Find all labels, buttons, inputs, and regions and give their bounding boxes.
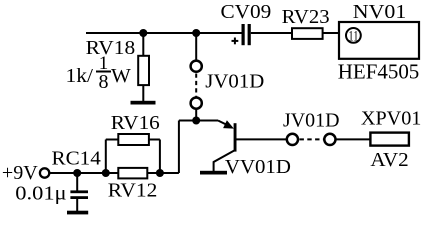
ground under RV18 <box>131 101 156 105</box>
junction dot RV pair left <box>102 169 110 177</box>
junction dot at JV01D top <box>192 29 200 37</box>
svg-text:XPV01: XPV01 <box>361 107 422 129</box>
svg-text:1k/: 1k/ <box>66 65 94 87</box>
junction dot at RV18 top <box>139 29 147 37</box>
wire bottom rail <box>49 172 179 174</box>
wire top rail left segment <box>86 32 242 34</box>
junction dot emitter node <box>192 117 200 125</box>
terminal +9V <box>40 168 49 177</box>
svg-text:CV09: CV09 <box>221 1 272 23</box>
wire rail between cap and RV23 <box>251 32 292 34</box>
svg-text:0.01μ: 0.01μ <box>15 182 66 204</box>
svg-text:8: 8 <box>99 71 109 93</box>
svg-text:+9V: +9V <box>2 162 38 184</box>
svg-text:RV12: RV12 <box>108 180 158 202</box>
svg-text:11: 11 <box>348 29 358 45</box>
svg-text:RC14: RC14 <box>52 147 101 169</box>
connector XPV01 <box>370 133 409 146</box>
resistor RV12 <box>118 168 147 179</box>
svg-text:RV18: RV18 <box>86 37 136 59</box>
ground under transistor <box>200 171 227 175</box>
resistor RV16 branch <box>106 134 160 173</box>
resistor RV23 <box>292 28 323 39</box>
jumper JV01D left <box>191 33 202 121</box>
pin 11 circle <box>346 28 361 43</box>
capacitor CV09 <box>232 24 251 45</box>
svg-text:NV01: NV01 <box>353 1 407 23</box>
svg-text:RV23: RV23 <box>282 6 330 28</box>
wire up from RV pair to emitter line <box>178 121 180 174</box>
svg-text:JV01D: JV01D <box>205 70 264 92</box>
svg-text:AV2: AV2 <box>370 149 408 171</box>
transistor VV01D <box>214 120 287 171</box>
junction dot RV pair right <box>156 169 164 177</box>
jumper JV01D right <box>287 134 371 145</box>
svg-text:W: W <box>111 65 131 87</box>
svg-text:VV01D: VV01D <box>225 156 291 178</box>
svg-text:JV01D: JV01D <box>283 109 340 131</box>
resistor RV18 <box>138 33 149 101</box>
ground under capacitor <box>67 211 88 215</box>
svg-text:RV16: RV16 <box>111 112 160 134</box>
wire RV23 to NV01 <box>323 32 339 34</box>
wire emitter horizontal <box>179 120 218 122</box>
IC NV01 box <box>339 22 419 59</box>
svg-text:HEF4505: HEF4505 <box>338 60 420 84</box>
junction dot cap branch <box>73 169 81 177</box>
capacitor 0.01u <box>70 173 88 211</box>
value label 1k/(1/8)W <box>66 53 131 93</box>
